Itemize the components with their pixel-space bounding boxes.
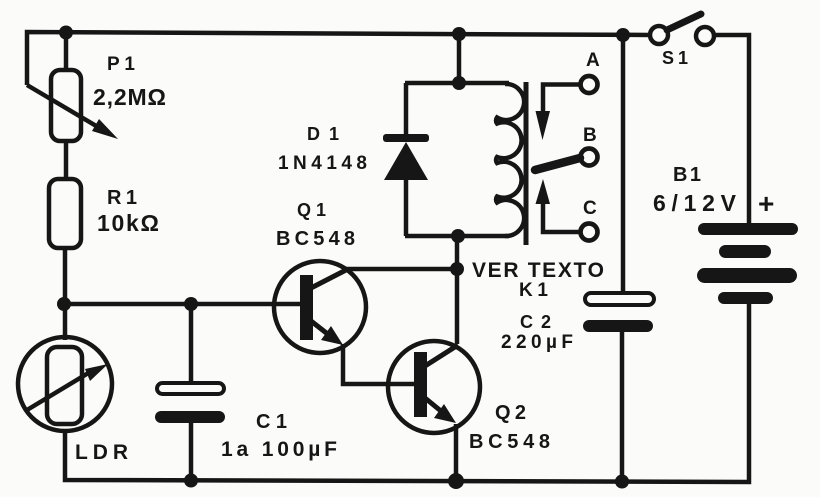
diode D1 cathode bar [383,134,429,142]
wire collector bus K1 to Q2 [455,236,460,344]
svg-text:VER TEXTO: VER TEXTO [472,259,604,282]
svg-text:BC548: BC548 [276,228,355,250]
svg-text:2,2MΩ: 2,2MΩ [93,84,166,110]
wire R1 bottom lead [63,248,68,304]
wire D1 anode lead [404,178,409,236]
node dot top rail C2 [616,28,630,42]
node dot bottom rail Q2 [448,473,464,489]
wire C2 branch from top rail [621,35,626,293]
relay contact B circle [581,149,598,166]
relay K1 coil [496,84,524,236]
svg-text:LDR: LDR [75,441,128,464]
capacitor C2 bottom plate [583,320,653,332]
wire D1 cathode lead [404,83,409,137]
node dot C1 top [184,297,198,311]
battery B1 bar 1 [698,223,798,235]
transistor Q1 [274,261,366,353]
switch S1 throw circle [696,27,714,45]
node dot base rail [57,297,71,311]
LDR circle [18,337,112,431]
capacitor C1 bottom plate [155,411,225,423]
node dot relay top [452,76,466,90]
svg-text:B1: B1 [673,164,701,186]
wire LDR top lead [63,304,68,340]
svg-text:C: C [583,198,597,219]
wire C1 bottom lead [189,423,194,481]
relay armature bar [535,158,580,170]
capacitor C1 top plate [157,383,224,394]
relay contact A circle [581,76,598,93]
switch S1 pole circle [650,26,668,44]
node dot top rail relay [452,27,466,41]
svg-text:6/12V: 6/12V [653,190,737,216]
wire P1 top lead [64,32,69,71]
LDR resistor body [47,347,82,424]
wire Q1 emitter to Q2 base [343,344,414,384]
wire top rail right of S1 [714,35,749,224]
relay K1 core bar [524,82,529,245]
svg-text:Q2: Q2 [495,402,526,424]
transistor Q2 [388,341,480,433]
battery B1 bar 2 [719,245,771,258]
potentiometer P1 wiper arrow [27,85,118,139]
wire K1 loop bottom [405,234,509,239]
node dot relay bottom [451,229,465,243]
wire top rail [27,32,650,85]
wire C1 top lead [189,304,194,384]
svg-text:1a 100µF: 1a 100µF [221,438,337,461]
svg-text:+: + [758,188,774,219]
relay contact A wire with down arrow [536,85,581,141]
wire Q1 collector horizontal [344,267,457,272]
switch S1 lever [667,14,701,30]
battery B1 bar 4 [718,292,773,304]
node dot bottom rail C2 [615,475,629,489]
wire P1-R1 link [64,141,69,180]
capacitor C2 top plate [585,293,654,305]
svg-text:A: A [586,50,600,71]
wire K1 loop top [405,81,509,86]
node dot Q1 collector [450,262,464,276]
svg-text:10kΩ: 10kΩ [97,210,159,236]
wire base rail to Q1 [64,302,302,307]
node dot bottom rail C1 [184,474,198,488]
resistor R1 body [49,179,81,248]
potentiometer P1 body [51,70,81,141]
battery B1 bar 3 [697,268,797,283]
relay contact C wire with up arrow [536,179,581,232]
svg-text:B: B [583,125,597,146]
relay contact C circle [581,224,598,241]
wire relay branch from top rail [457,34,462,83]
diode D1 triangle [384,142,428,180]
wire bottom rail [65,304,749,482]
LDR arrow [27,364,108,410]
wire Q2 emitter lead [454,424,459,481]
node dot top rail P1 [59,26,73,40]
wire C2 bottom lead [620,332,625,481]
